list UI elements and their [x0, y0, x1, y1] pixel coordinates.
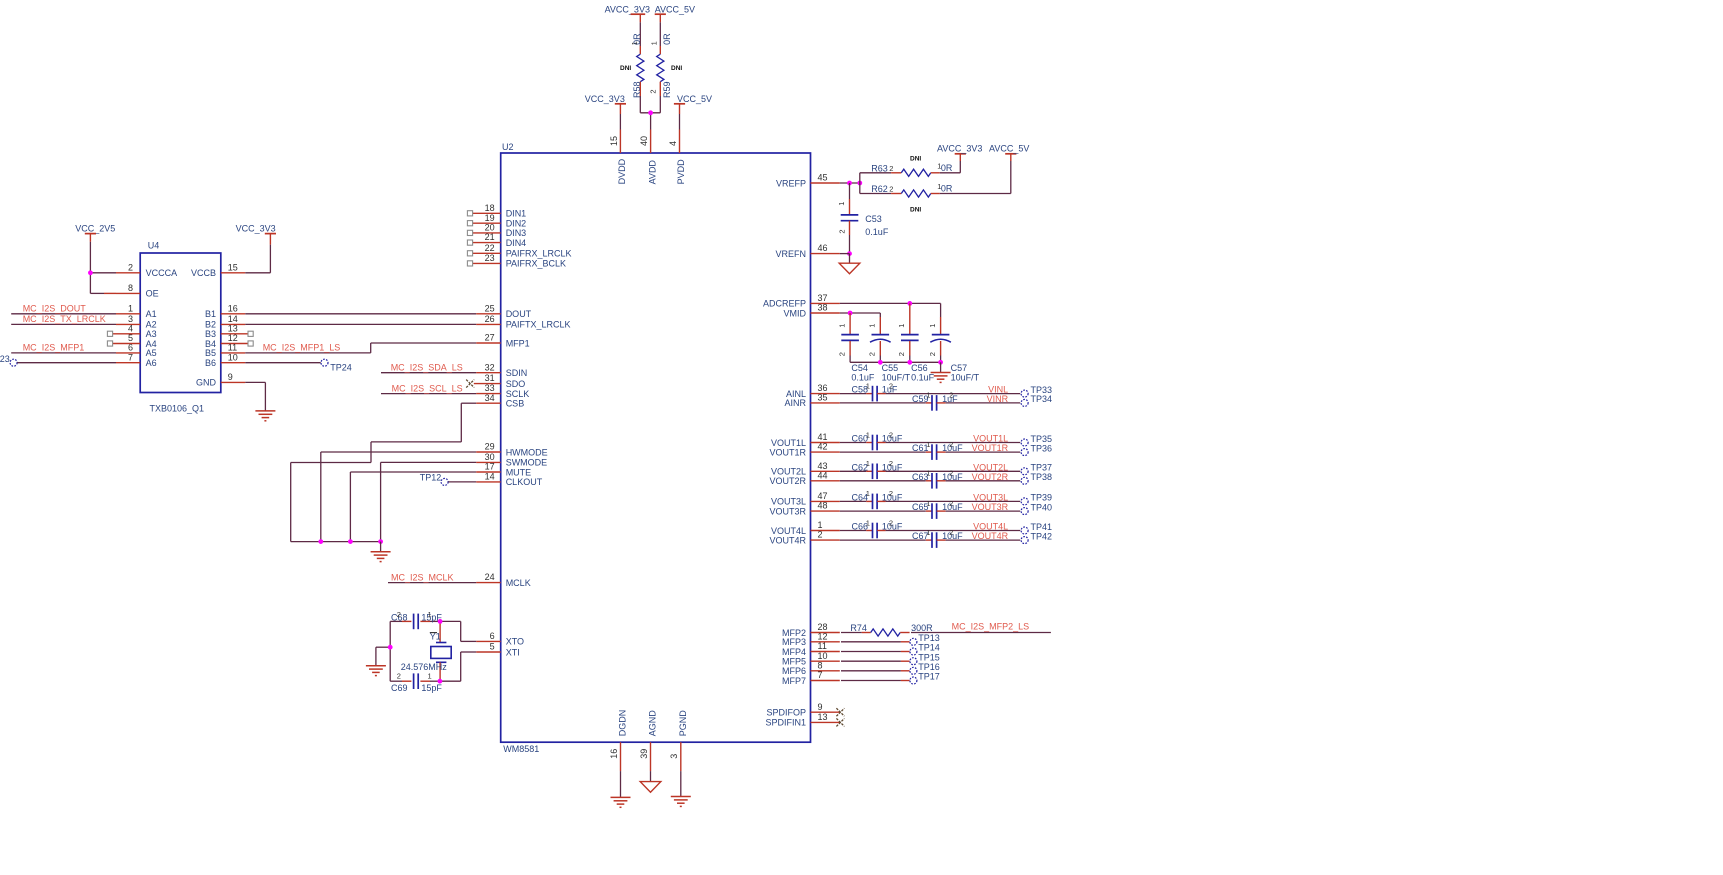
svg-text:2: 2 [889, 459, 893, 468]
power flag AVCC_3V3 (R63) [937, 143, 982, 173]
svg-text:U4: U4 [148, 240, 160, 250]
U2 pin 38 VMID (right) [784, 303, 840, 319]
svg-text:MFP6: MFP6 [782, 666, 806, 676]
U2 pin 23 PAIFRX_BCLK (left) [467, 253, 566, 269]
test point TP16 [910, 662, 940, 674]
svg-text:MFP4: MFP4 [782, 647, 806, 657]
svg-text:OE: OE [146, 289, 159, 299]
U2 pin 16 DGDN (bottom) [609, 710, 628, 771]
svg-text:1: 1 [866, 518, 870, 527]
svg-text:26: 26 [485, 314, 495, 324]
U2 pin 24 MCLK (left) [476, 572, 531, 588]
capacitor C53 0.1uF [837, 183, 889, 254]
resistor R63 0R (DNI) [860, 156, 961, 184]
wire MUTE to ground rail [350, 472, 476, 542]
svg-text:2: 2 [897, 352, 906, 356]
U2 pin 33 SCLK (left) [476, 383, 529, 399]
test point TP14 [910, 643, 940, 655]
U2 pin 13 SPDIFIN1 (right) [765, 712, 839, 728]
U4 pin 12 B4 (right) [205, 333, 253, 349]
svg-text:A5: A5 [146, 348, 157, 358]
U2 pin 25 DOUT (left) [476, 303, 531, 319]
svg-text:41: 41 [818, 432, 828, 442]
svg-text:1: 1 [866, 489, 870, 498]
svg-text:8: 8 [128, 283, 133, 293]
svg-text:DNI: DNI [620, 65, 631, 72]
test point TP35 [1021, 434, 1052, 446]
wire SWMODE to ground rail [381, 462, 477, 541]
U2 pin 15 DVDD (top) [609, 130, 627, 185]
ground U4 GND [245, 382, 275, 420]
svg-text:VOUT3L: VOUT3L [973, 493, 1008, 503]
capacitor C62 10uF (VOUT2L) [840, 459, 903, 479]
svg-text:AVCC_5V: AVCC_5V [655, 5, 695, 15]
svg-text:SDO: SDO [506, 379, 526, 389]
svg-text:AVCC_3V3: AVCC_3V3 [937, 143, 982, 153]
capacitor C58 1uF (VINL) [840, 381, 898, 401]
U2 pin 32 SDIN (left) [476, 362, 527, 378]
U2 pin 48 VOUT3R (right) [769, 501, 839, 517]
svg-text:MC_I2S_MFP1_LS: MC_I2S_MFP1_LS [263, 342, 341, 352]
svg-text:1: 1 [866, 381, 870, 390]
IC U2 WM8581 body [501, 142, 811, 754]
svg-text:AVCC_5V: AVCC_5V [989, 143, 1029, 153]
svg-text:VINR: VINR [987, 394, 1009, 404]
svg-text:TP40: TP40 [1031, 502, 1053, 512]
svg-text:1: 1 [928, 324, 937, 328]
svg-text:MFP3: MFP3 [782, 637, 806, 647]
wire ADCREFP to C56/C57 tops [840, 303, 941, 317]
svg-text:VOUT3R: VOUT3R [972, 502, 1009, 512]
svg-text:VOUT4L: VOUT4L [771, 526, 806, 536]
svg-text:30: 30 [485, 452, 495, 462]
svg-text:9: 9 [818, 702, 823, 712]
junction VMID/ADCREFP dots [848, 301, 913, 315]
svg-text:46: 46 [818, 243, 828, 253]
svg-text:MC_I2S_MCLK: MC_I2S_MCLK [391, 572, 454, 582]
svg-text:VCC_5V: VCC_5V [677, 94, 712, 104]
svg-text:1: 1 [428, 672, 432, 681]
svg-text:DGDN: DGDN [618, 710, 628, 737]
svg-text:B5: B5 [205, 348, 216, 358]
svg-text:MFP5: MFP5 [782, 657, 806, 667]
resistor R62 0R (DNI) [860, 182, 1011, 214]
capacitor C59 1uF (VINR) [840, 391, 958, 411]
svg-text:15: 15 [228, 262, 238, 272]
svg-text:11: 11 [228, 343, 237, 353]
svg-text:SCLK: SCLK [506, 389, 530, 399]
power flag AVCC_5V (top) [655, 5, 695, 23]
U2 pin 11 MFP4 (right) [782, 641, 840, 657]
svg-text:VREFP: VREFP [776, 178, 806, 188]
svg-text:R62: R62 [871, 184, 888, 194]
svg-text:5: 5 [490, 642, 495, 652]
capacitor C60 10uF (VOUT1L) [840, 430, 903, 450]
svg-text:2: 2 [649, 89, 658, 93]
svg-text:13: 13 [818, 712, 828, 722]
svg-text:2: 2 [397, 672, 401, 681]
net MC_I2S_MCLK wire (MCLK) [388, 572, 476, 582]
capacitor C54 0.1uF [837, 313, 875, 383]
svg-text:A3: A3 [146, 329, 157, 339]
wire ground rail [291, 541, 381, 543]
U2 pin 26 PAIFTX_LRCLK (left) [476, 314, 570, 330]
net MC_I2S_TX_LRCLK wire (A2) [11, 314, 116, 324]
svg-text:TP16: TP16 [918, 662, 940, 672]
svg-text:2: 2 [949, 391, 953, 400]
test point TP38 [1021, 472, 1052, 484]
svg-text:R63: R63 [871, 164, 888, 174]
test point TP15 [910, 652, 940, 664]
power flag AVCC_3V3 (top) [605, 5, 650, 23]
ground mode-pins rail [371, 542, 391, 562]
U2 pin 6 XTO (left) [476, 631, 524, 647]
test point TP23 (A6) [0, 354, 116, 366]
svg-text:34: 34 [485, 393, 495, 403]
svg-text:B6: B6 [205, 358, 216, 368]
net VOUT2L wire [886, 462, 1021, 472]
svg-text:2: 2 [949, 469, 953, 478]
wire MFP to TP17 [841, 680, 910, 682]
svg-text:2: 2 [818, 530, 823, 540]
net VOUT1L wire [886, 434, 1021, 444]
svg-text:1: 1 [866, 459, 870, 468]
svg-text:VCCCA: VCCCA [146, 268, 178, 278]
svg-text:1: 1 [866, 430, 870, 439]
junction AVDD node [648, 110, 653, 115]
svg-text:2: 2 [397, 610, 401, 619]
svg-text:HWMODE: HWMODE [506, 447, 548, 457]
svg-text:1: 1 [818, 520, 823, 530]
svg-text:2: 2 [889, 489, 893, 498]
svg-text:B3: B3 [205, 329, 216, 339]
test point TP13 [910, 633, 940, 645]
svg-text:2: 2 [889, 518, 893, 527]
resistor R74 300R (MFP2) [841, 623, 933, 636]
svg-text:2: 2 [889, 185, 893, 194]
junction VREFN node [847, 251, 852, 256]
svg-text:TP36: TP36 [1031, 443, 1053, 453]
net VOUT3R wire [946, 502, 1021, 512]
wire HWMODE to ground rail [321, 452, 476, 542]
net VOUT1R wire [946, 443, 1021, 453]
wire MFP to TP16 [841, 670, 910, 672]
svg-text:A1: A1 [146, 309, 157, 319]
svg-text:VCCB: VCCB [191, 268, 216, 278]
svg-text:PAIFRX_LRCLK: PAIFRX_LRCLK [506, 249, 572, 259]
crystal Y1 24.576MHz [401, 621, 451, 681]
U4 pin 2 VCCCA (left) [116, 262, 177, 278]
wire VCCB to VCC_3V3 [245, 272, 270, 274]
U2 pin 14 CLKOUT (left) [476, 472, 543, 488]
U2 pin 40 AVDD (top) [639, 130, 657, 185]
svg-text:AVCC_3V3: AVCC_3V3 [605, 5, 650, 15]
svg-text:10: 10 [818, 651, 828, 661]
svg-text:20: 20 [485, 223, 495, 233]
svg-text:10: 10 [228, 352, 238, 362]
svg-text:1: 1 [926, 469, 930, 478]
svg-text:VOUT4R: VOUT4R [972, 531, 1009, 541]
wire VMID to C54/C55 tops [840, 313, 881, 317]
svg-text:0.1uF: 0.1uF [865, 227, 889, 237]
U2 pin 9 SPDIFOP (right) [766, 702, 839, 718]
U2 pin 37 ADCREFP (right) [763, 293, 840, 309]
no-connect X on SDO pin 31 [466, 380, 474, 388]
wire XTI to crystal bottom [440, 652, 476, 681]
svg-text:TP42: TP42 [1031, 531, 1053, 541]
svg-text:2: 2 [889, 430, 893, 439]
svg-text:24: 24 [485, 572, 495, 582]
capacitor C69 15pF [390, 672, 442, 693]
U4 pin 8 OE (left) [116, 283, 159, 299]
svg-text:PAIFRX_BCLK: PAIFRX_BCLK [506, 259, 566, 269]
junction crystal nodes [388, 619, 443, 684]
svg-text:42: 42 [818, 442, 828, 452]
svg-text:1: 1 [837, 324, 846, 328]
svg-text:AVDD: AVDD [647, 160, 657, 185]
wire MFP to TP14 [841, 651, 910, 653]
svg-text:TP13: TP13 [918, 633, 940, 643]
U2 pin 43 VOUT2L (right) [771, 461, 840, 477]
svg-text:MC_I2S_SCL_LS: MC_I2S_SCL_LS [392, 383, 463, 393]
svg-text:ADCREFP: ADCREFP [763, 299, 806, 309]
svg-text:21: 21 [485, 232, 495, 242]
net MC_I2S_MFP2_LS wire [911, 621, 1051, 632]
svg-text:10uF/T: 10uF/T [882, 373, 911, 383]
svg-text:0R: 0R [662, 33, 672, 45]
svg-text:VOUT1R: VOUT1R [972, 443, 1009, 453]
U4 pin 4 A3 (left) [107, 323, 156, 339]
U2 pin 7 MFP7 (right) [782, 670, 840, 686]
ground VMID cap bank [931, 362, 951, 382]
svg-text:CSB: CSB [506, 399, 525, 409]
U4 pin 6 A5 (left) [116, 343, 157, 359]
net VINL wire [886, 385, 1021, 395]
svg-text:48: 48 [818, 501, 828, 511]
svg-text:XTO: XTO [506, 637, 524, 647]
svg-text:0.1uF: 0.1uF [911, 373, 935, 383]
svg-text:MC_I2S_TX_LRCLK: MC_I2S_TX_LRCLK [23, 314, 106, 324]
power flag VCC_2V5 [75, 224, 115, 273]
svg-text:1: 1 [428, 610, 432, 619]
svg-text:VOUT4L: VOUT4L [973, 522, 1008, 532]
svg-text:C56: C56 [911, 363, 928, 373]
svg-text:TP24: TP24 [330, 363, 352, 373]
ground AGND (open triangle) [640, 771, 661, 792]
capacitor C64 10uF (VOUT3L) [840, 489, 903, 509]
net MC_I2S_MFP1 wire (A5) [11, 343, 116, 353]
net VOUT4L wire [886, 522, 1021, 532]
svg-text:2: 2 [928, 352, 937, 356]
svg-text:TP39: TP39 [1031, 493, 1053, 503]
svg-text:VREFN: VREFN [775, 249, 806, 259]
svg-text:2: 2 [949, 440, 953, 449]
svg-text:16: 16 [609, 749, 619, 759]
svg-text:3: 3 [669, 754, 679, 759]
net MC_I2S_DOUT wire (A1) [11, 304, 116, 314]
U2 pin 30 SWMODE (left) [476, 452, 547, 468]
test point TP40 [1021, 502, 1052, 514]
test point TP36 [1021, 443, 1052, 455]
U4 pin 10 B6 (right) [205, 352, 245, 368]
wire B2 to PAIFTX_LRCLK (pin26) [245, 323, 476, 325]
svg-text:1: 1 [926, 528, 930, 537]
test point TP41 [1021, 522, 1052, 534]
svg-text:0R: 0R [941, 184, 953, 194]
resistor R59 (0R, DNI) [650, 22, 683, 98]
svg-text:2: 2 [868, 352, 877, 356]
net VOUT3L wire [886, 493, 1021, 503]
svg-text:14: 14 [485, 472, 495, 482]
svg-text:DNI: DNI [910, 207, 921, 214]
svg-text:C69: C69 [391, 683, 408, 693]
svg-text:MFP7: MFP7 [782, 676, 806, 686]
svg-text:DIN1: DIN1 [506, 209, 527, 219]
svg-text:C55: C55 [882, 363, 899, 373]
U4 pin 7 A6 (left) [116, 352, 157, 368]
test point TP42 [1021, 531, 1052, 543]
svg-text:9: 9 [228, 372, 233, 382]
U2 pin 2 VOUT4R (right) [769, 530, 839, 546]
U2 pin 8 MFP6 (right) [782, 660, 840, 676]
capacitor C66 10uF (VOUT4L) [840, 518, 903, 538]
U4 pin 5 A4 (left) [107, 333, 156, 349]
svg-text:0R: 0R [941, 163, 953, 173]
svg-text:VOUT3R: VOUT3R [769, 506, 806, 516]
svg-text:18: 18 [485, 203, 495, 213]
svg-text:1: 1 [926, 440, 930, 449]
U2 pin 1 VOUT4L (right) [771, 520, 840, 536]
power flag VCC_5V (PVDD) [674, 94, 712, 130]
svg-text:35: 35 [818, 393, 828, 403]
svg-text:MC_I2S_MFP1: MC_I2S_MFP1 [23, 343, 85, 353]
wire VREFN [840, 253, 850, 255]
net MC_I2S_SDA_LS wire (SDIN) [381, 362, 476, 372]
svg-text:7: 7 [128, 352, 133, 362]
svg-text:U2: U2 [502, 142, 514, 152]
svg-text:1: 1 [926, 499, 930, 508]
svg-text:TP23: TP23 [0, 354, 10, 364]
capacitor C57 10uF/T [928, 317, 980, 383]
U2 pin 17 MUTE (left) [476, 462, 531, 478]
U4 pin 15 VCCB (right) [191, 262, 245, 278]
U2 pin 10 MFP5 (right) [782, 651, 840, 667]
svg-text:TP34: TP34 [1031, 394, 1053, 404]
U2 pin 44 VOUT2R (right) [769, 470, 839, 486]
svg-text:PVDD: PVDD [676, 159, 686, 185]
U4 pin 9 GND (right) [196, 372, 245, 388]
U2 pin 19 DIN2 (left) [467, 213, 526, 229]
svg-text:PGND: PGND [678, 710, 688, 737]
wire MFP to TP13 [841, 641, 910, 643]
svg-text:VOUT2L: VOUT2L [973, 462, 1008, 472]
svg-text:VMID: VMID [784, 308, 807, 318]
U2 pin 22 PAIFRX_LRCLK (left) [467, 243, 571, 259]
svg-text:XTI: XTI [506, 647, 520, 657]
svg-text:PAIFTX_LRCLK: PAIFTX_LRCLK [506, 320, 571, 330]
svg-text:Y1: Y1 [430, 632, 441, 642]
svg-text:11: 11 [818, 641, 827, 651]
svg-text:DIN3: DIN3 [506, 228, 527, 238]
net VOUT2R wire [946, 472, 1021, 482]
svg-text:8: 8 [818, 660, 823, 670]
svg-text:15pF: 15pF [421, 683, 442, 693]
svg-text:VCC_3V3: VCC_3V3 [585, 94, 625, 104]
U2 pin 5 XTI (left) [476, 642, 520, 658]
svg-text:DIN2: DIN2 [506, 219, 527, 229]
U2 pin 21 DIN4 (left) [467, 232, 526, 248]
svg-text:39: 39 [639, 749, 649, 759]
svg-text:SPDIFOP: SPDIFOP [766, 708, 806, 718]
svg-text:AINR: AINR [784, 398, 806, 408]
svg-text:R59: R59 [662, 81, 672, 98]
ground crystal [366, 665, 386, 667]
wire cap bank bottom rail [850, 361, 941, 363]
test point TP34 [1021, 394, 1052, 406]
capacitor C65 10uF (VOUT3R) [840, 499, 963, 519]
capacitor C68 15pF [390, 610, 442, 629]
svg-text:DVDD: DVDD [617, 158, 627, 184]
svg-text:MFP1: MFP1 [506, 338, 530, 348]
svg-text:19: 19 [485, 213, 495, 223]
junction VREFP dots [847, 181, 862, 186]
no-connect X SPDIFIN1 [836, 718, 844, 726]
svg-text:AGND: AGND [648, 710, 658, 737]
svg-text:25: 25 [485, 303, 495, 313]
test point TP33 [1021, 385, 1052, 397]
svg-text:2: 2 [949, 499, 953, 508]
capacitor C56 0.1uF [897, 303, 935, 382]
U2 pin 27 MFP1 (left) [476, 333, 530, 349]
ground PGND [671, 771, 691, 806]
svg-text:1: 1 [926, 391, 930, 400]
test point TP17 [910, 672, 940, 684]
svg-text:TXB0106_Q1: TXB0106_Q1 [150, 404, 205, 414]
svg-text:1: 1 [128, 303, 133, 313]
svg-text:300R: 300R [911, 623, 933, 633]
wire VCC_2V5 to VCCCA and OE [90, 273, 116, 294]
capacitor C63 10uF (VOUT2R) [840, 469, 963, 489]
svg-text:TP17: TP17 [918, 672, 940, 682]
svg-text:32: 32 [485, 362, 495, 372]
svg-text:2: 2 [889, 381, 893, 390]
svg-text:23: 23 [485, 253, 495, 263]
svg-text:SPDIFIN1: SPDIFIN1 [765, 718, 806, 728]
svg-text:22: 22 [485, 243, 495, 253]
svg-text:TP15: TP15 [918, 652, 940, 662]
svg-text:VOUT2L: VOUT2L [771, 467, 806, 477]
svg-text:TP14: TP14 [918, 643, 940, 653]
svg-text:13: 13 [228, 323, 238, 333]
svg-text:DIN4: DIN4 [506, 238, 527, 248]
U2 pin 34 CSB (left) [476, 393, 524, 409]
test point TP37 [1021, 463, 1052, 475]
svg-text:MC_I2S_MFP2_LS: MC_I2S_MFP2_LS [952, 621, 1030, 631]
power flag VCC_3V3 (VCCB) [236, 224, 276, 273]
svg-text:0.1uF: 0.1uF [851, 373, 875, 383]
U2 pin 12 MFP3 (right) [782, 631, 840, 647]
svg-text:VCC_3V3: VCC_3V3 [236, 224, 276, 234]
svg-text:VOUT1L: VOUT1L [973, 434, 1008, 444]
test point TP24 (B6) [245, 359, 352, 372]
U2 pin 4 PVDD (top) [668, 130, 686, 185]
junction cap bank rail dots [878, 360, 943, 365]
svg-text:16: 16 [228, 303, 238, 313]
svg-text:31: 31 [485, 373, 495, 383]
resistor R58 (0R, DNI) [620, 22, 658, 98]
svg-text:TP41: TP41 [1031, 522, 1053, 532]
U2 pin 28 MFP2 (right) [782, 622, 840, 638]
